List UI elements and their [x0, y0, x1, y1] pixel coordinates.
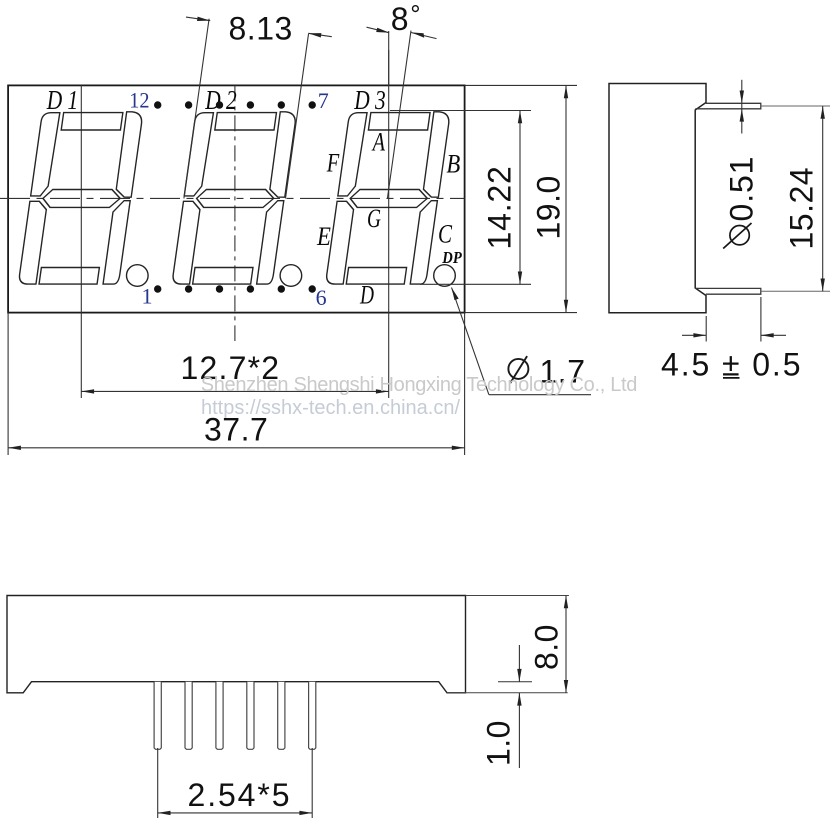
dim 14.22 line	[519, 111, 521, 285]
side view bottom pin	[695, 288, 761, 294]
svg-text:8.0: 8.0	[529, 624, 565, 670]
dim 19.0 bottom extension	[465, 312, 577, 314]
svg-text:F: F	[326, 148, 340, 177]
svg-text:DP: DP	[441, 248, 462, 267]
digit D3 centerline	[388, 50, 390, 398]
dim 15.24 bottom extension	[761, 290, 830, 292]
svg-text:2.54*5: 2.54*5	[188, 777, 292, 813]
svg-text:7: 7	[318, 88, 329, 113]
dim 8.0 bottom extension	[447, 692, 568, 694]
svg-text:E: E	[316, 222, 331, 251]
svg-text:https://sshx-tech.en.china.cn/: https://sshx-tech.en.china.cn/	[201, 397, 460, 419]
svg-text:8.13: 8.13	[229, 11, 293, 47]
text dia 1.7	[508, 359, 528, 379]
digit D1	[18, 112, 148, 287]
dim 8deg right arrow line	[411, 33, 437, 39]
dim 8.13 left extension line	[184, 19, 209, 199]
dim 4.5 right arrow line	[761, 334, 786, 336]
dim 2.54*5 left extension	[157, 748, 159, 818]
dim 1.0 short reference line	[498, 681, 532, 683]
svg-text:G: G	[367, 204, 381, 233]
svg-text:15.24: 15.24	[784, 167, 820, 250]
dim 8deg arrowheads	[376, 28, 389, 33]
svg-text:1: 1	[142, 284, 153, 309]
dim 37.7 line	[8, 447, 465, 449]
dim 8deg slanted centerline of D3	[387, 31, 411, 199]
svg-text:1.0: 1.0	[481, 720, 517, 766]
dim 0.51 vertical line	[741, 80, 743, 134]
dim 1.0 upper arrow line	[518, 645, 520, 682]
dim 8.0 top extension	[466, 595, 569, 597]
dia 1.7 leader diagonal	[452, 288, 489, 395]
side view top pin	[695, 103, 761, 109]
dim 19.0 arrowheads	[564, 85, 568, 98]
dim 14.22 bottom extension	[420, 283, 531, 285]
digit D1 centerline	[80, 85, 82, 398]
dia 1.7 leader horizontal	[489, 394, 591, 396]
dim 12.7*2 arrowheads	[81, 389, 94, 393]
svg-text:6: 6	[316, 285, 327, 310]
svg-text:D 3: D 3	[353, 85, 385, 115]
svg-text:12: 12	[129, 88, 149, 113]
dim 37.7 arrowheads	[8, 446, 21, 450]
horizontal centerline	[0, 197, 465, 199]
dim 4.5 left extension	[705, 316, 707, 342]
dim 1.0 lower arrow line	[518, 693, 520, 768]
front view outline	[8, 85, 465, 312]
digit D2	[172, 112, 302, 287]
svg-text:Shenzhen Shengshi Hongxing Tec: Shenzhen Shengshi Hongxing Technology Co…	[201, 374, 637, 396]
side view body	[609, 84, 706, 313]
dim 8.13 right extension line	[286, 34, 309, 198]
dim 14.22 arrowheads	[518, 111, 522, 124]
dim 14.22 top extension	[390, 110, 531, 112]
dim 4.5 right extension	[760, 297, 762, 342]
dim 8deg left arrow line	[367, 27, 389, 32]
dim 8.13 arrowheads	[197, 17, 210, 21]
dim 37.7 left extension	[7, 313, 9, 455]
svg-text:D 2: D 2	[204, 85, 236, 115]
svg-text:14.22: 14.22	[482, 165, 518, 249]
top pin dots	[154, 101, 316, 108]
dim 8.0 line	[565, 596, 567, 693]
bottom view body	[7, 596, 466, 693]
dim 19.0 top extension	[465, 84, 577, 86]
dim 8deg vertical ref line top	[388, 31, 390, 85]
svg-text:C: C	[438, 219, 453, 248]
dim 19.0 line	[565, 85, 567, 312]
dim 12.7*2 line	[81, 390, 388, 392]
dim 4.5 left arrow line	[682, 334, 706, 336]
dim 2.54*5 line	[158, 812, 313, 814]
svg-text:A: A	[371, 127, 385, 156]
svg-text:D 1: D 1	[46, 85, 78, 115]
svg-text:D: D	[359, 281, 374, 310]
plus-minus underline	[723, 377, 740, 379]
dia 1.7 leader arrowhead	[452, 288, 459, 301]
bottom view pins	[154, 682, 316, 750]
dim 8.13 left arrow line	[186, 17, 210, 21]
svg-text:B: B	[446, 150, 460, 179]
dim 15.24 top extension	[761, 105, 830, 107]
dim 37.7 right extension	[464, 313, 466, 455]
digit D2 centerline	[234, 85, 236, 341]
bottom pin dots	[154, 285, 316, 292]
dim 8.13 right arrow line	[308, 33, 332, 36]
svg-text:0.51: 0.51	[724, 156, 760, 222]
dim 15.24 line	[822, 106, 824, 291]
digit D3	[325, 112, 455, 287]
svg-text:8: 8	[391, 1, 409, 37]
svg-text:19.0: 19.0	[531, 175, 567, 239]
dim 2.54*5 right extension	[311, 748, 313, 818]
